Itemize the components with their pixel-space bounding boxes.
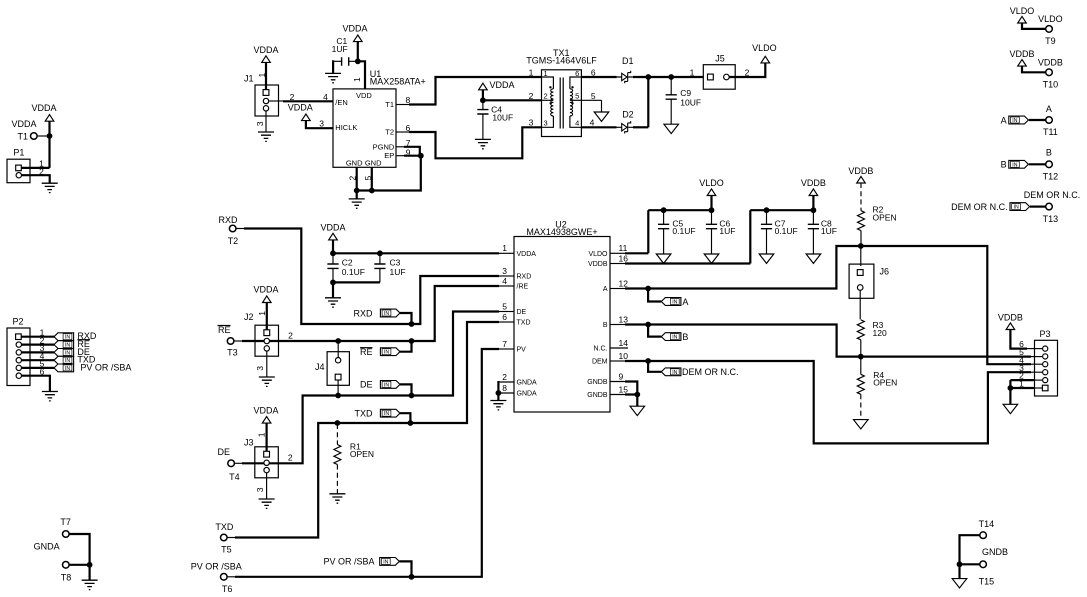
svg-text:EP: EP xyxy=(384,151,394,160)
node junction C7 xyxy=(764,207,770,213)
power flag VDDB at T10 xyxy=(1009,49,1034,66)
svg-text:4: 4 xyxy=(575,118,579,127)
power flag VDDA at HICLK xyxy=(288,103,313,121)
resistor R3 xyxy=(857,320,887,357)
svg-text:P3: P3 xyxy=(1039,329,1050,339)
svg-text:VDDA: VDDA xyxy=(11,119,36,129)
ground T14/T15 xyxy=(952,579,967,588)
jumper J1 xyxy=(244,73,279,117)
svg-text:RXD: RXD xyxy=(517,274,532,281)
ground U2 GNDA xyxy=(490,401,506,410)
test point T12 xyxy=(1043,148,1059,182)
wire VDDB to P3 pin6 xyxy=(1010,329,1027,348)
svg-text:GND: GND xyxy=(346,159,363,168)
wire VDDB rail xyxy=(750,210,813,263)
wire GND stem xyxy=(356,191,358,199)
svg-text:DEM OR N.C.: DEM OR N.C. xyxy=(951,202,1008,212)
svg-text:5: 5 xyxy=(575,92,579,101)
wire TX1 pin5 to ground xyxy=(581,99,601,101)
svg-text:T1: T1 xyxy=(17,131,28,141)
port P2 RXD IN xyxy=(54,331,97,341)
wire RXD to U2 pin3 xyxy=(412,276,500,324)
wire B net xyxy=(610,324,626,326)
port PV OR /SBA IN xyxy=(323,557,411,575)
svg-text:TGMS-1464V6LF: TGMS-1464V6LF xyxy=(526,56,597,66)
svg-text:4: 4 xyxy=(323,92,328,102)
svg-text:GNDB: GNDB xyxy=(587,379,608,386)
svg-text:C9: C9 xyxy=(680,88,691,98)
capacitor C2 xyxy=(327,253,365,282)
svg-text:D2: D2 xyxy=(622,109,634,119)
wire RE net xyxy=(234,340,243,342)
capacitor C8 xyxy=(808,210,837,254)
node junction A tag xyxy=(645,286,651,292)
wire T14/T15 ground xyxy=(960,535,980,564)
wire VDDA stem to C1 junction xyxy=(357,41,359,61)
wire VLDO rail xyxy=(648,210,711,253)
node junction D1/D2 xyxy=(645,74,651,80)
wire GNDB stem xyxy=(636,395,638,407)
svg-text:T11: T11 xyxy=(1043,127,1058,137)
wire C1 left to ground xyxy=(332,60,334,73)
wire PV net xyxy=(227,576,236,578)
svg-text:5: 5 xyxy=(591,91,596,101)
test point T7 xyxy=(60,517,71,537)
wire VDDB stem xyxy=(812,196,814,211)
svg-text:VLDO: VLDO xyxy=(1038,14,1063,24)
svg-text:14: 14 xyxy=(619,338,629,348)
svg-text:J6: J6 xyxy=(880,267,890,277)
jumper J3 xyxy=(244,406,293,499)
svg-text:A: A xyxy=(682,297,688,307)
svg-text:0.1UF: 0.1UF xyxy=(672,226,695,236)
svg-text:DEM: DEM xyxy=(592,359,608,366)
port TXD IN xyxy=(355,408,411,421)
node junction T1/VDDA xyxy=(47,133,53,139)
port A IN xyxy=(648,289,688,307)
capacitor C7 xyxy=(761,210,798,254)
svg-text:PV OR /SBA: PV OR /SBA xyxy=(191,561,242,571)
node junction C4/TX1 pin2 xyxy=(480,97,486,103)
node junction RXD tag xyxy=(409,321,415,327)
svg-text:1: 1 xyxy=(529,68,534,78)
svg-text:1: 1 xyxy=(257,311,267,316)
power flag VDDA at C4 xyxy=(479,80,515,90)
wire P3 ground stem xyxy=(1009,388,1011,404)
svg-text:GNDA: GNDA xyxy=(517,391,538,398)
diode D2 xyxy=(617,109,641,133)
svg-text:T4: T4 xyxy=(229,472,240,482)
node junction P3 ground xyxy=(1008,385,1014,391)
ground T7/T8 xyxy=(82,580,98,589)
svg-text:GND: GND xyxy=(365,159,382,168)
svg-text:2: 2 xyxy=(529,91,534,101)
svg-text:T2: T2 xyxy=(228,236,239,246)
wire A net xyxy=(610,288,626,290)
node junction J4 bottom xyxy=(335,393,341,399)
wire T9 xyxy=(1022,23,1046,29)
svg-text:PV: PV xyxy=(517,347,527,354)
wire D2 cathode to link xyxy=(633,126,648,128)
ground R4 xyxy=(854,420,869,429)
svg-text:T3: T3 xyxy=(227,348,238,358)
port P2 TXD IN xyxy=(54,355,96,365)
svg-text:10UF: 10UF xyxy=(680,97,701,107)
svg-text:RXD: RXD xyxy=(219,215,239,225)
wire J1 pin2 to U1 /EN xyxy=(269,100,283,102)
power flag VDDB at P3 xyxy=(998,312,1023,329)
wire J1 pin1 stem xyxy=(265,62,267,90)
node junction VDD xyxy=(355,58,361,64)
svg-text:T7: T7 xyxy=(60,517,71,527)
svg-text:DEM OR N.C.: DEM OR N.C. xyxy=(682,367,739,377)
wire HICLK xyxy=(306,121,333,129)
svg-text:RXD: RXD xyxy=(353,308,373,318)
svg-text:T12: T12 xyxy=(1043,172,1059,182)
capacitor C5 xyxy=(658,210,696,254)
svg-text:VLDO: VLDO xyxy=(1010,6,1035,16)
test point T3 xyxy=(218,325,238,357)
wire GNDA stem xyxy=(497,393,499,401)
svg-text:3: 3 xyxy=(544,118,548,127)
test point T5 xyxy=(215,522,234,555)
svg-text:VDDA: VDDA xyxy=(253,45,278,55)
svg-text:B: B xyxy=(1001,160,1007,170)
svg-text:RE: RE xyxy=(218,325,231,335)
svg-text:T10: T10 xyxy=(1043,79,1059,89)
svg-text:4: 4 xyxy=(502,276,507,286)
node junction C2 bottom xyxy=(330,280,336,286)
node junction C5 xyxy=(661,207,667,213)
node junction GNDA xyxy=(496,390,502,396)
svg-text:GNDB: GNDB xyxy=(982,547,1008,557)
wire TXD net xyxy=(227,537,236,539)
svg-text:0.1UF: 0.1UF xyxy=(342,267,365,277)
power flag VLDO at C5/C6 xyxy=(699,178,724,195)
node junction DE tag xyxy=(409,393,415,399)
svg-text:N.C.: N.C. xyxy=(594,346,608,353)
svg-text:2: 2 xyxy=(288,452,293,462)
node junction GNDB xyxy=(634,392,640,398)
capacitor C9 xyxy=(666,77,701,124)
wire T10 xyxy=(1022,66,1046,72)
wire D1 cathode to J5 xyxy=(633,76,703,78)
ground P1 xyxy=(42,183,58,192)
svg-text:B: B xyxy=(682,332,688,342)
svg-text:T2: T2 xyxy=(385,128,394,137)
svg-text:D1: D1 xyxy=(622,56,634,66)
jumper J2 xyxy=(244,285,293,378)
wire U2 GNDA pins to ground xyxy=(498,382,514,393)
svg-text:T14: T14 xyxy=(979,519,995,529)
svg-text:1UF: 1UF xyxy=(719,226,735,236)
svg-text:0.1UF: 0.1UF xyxy=(775,226,798,236)
svg-text:VDDA: VDDA xyxy=(342,23,367,33)
wire TX1 pin2 xyxy=(483,99,542,101)
svg-text:15: 15 xyxy=(619,384,629,394)
test point T14 xyxy=(979,519,995,539)
node junction DEM tag xyxy=(645,358,651,364)
ground C2/C3 xyxy=(325,298,341,307)
ground C4 xyxy=(475,139,491,148)
wire VDDA stem to C4 node xyxy=(482,90,484,101)
power flag VDDA above J1 xyxy=(253,45,278,62)
jumper J4 xyxy=(315,341,349,396)
wire U2 pin14 N.C. stub xyxy=(610,347,628,349)
ground P2 xyxy=(42,392,58,401)
svg-text:11: 11 xyxy=(619,243,628,253)
svg-text:10: 10 xyxy=(619,351,629,361)
svg-text:TXD: TXD xyxy=(355,408,374,418)
svg-text:PV OR /SBA: PV OR /SBA xyxy=(323,557,374,567)
svg-text:3: 3 xyxy=(502,266,507,276)
test point T13 xyxy=(1024,190,1081,224)
svg-text:VDDA: VDDA xyxy=(288,103,313,113)
svg-text:OPEN: OPEN xyxy=(350,449,374,459)
svg-text:B: B xyxy=(603,322,608,329)
svg-text:VDDB: VDDB xyxy=(588,261,608,268)
wire VDDA vertical from flag to P1 pin1 xyxy=(48,121,50,168)
svg-text:P1: P1 xyxy=(13,147,24,157)
svg-text:GNDA: GNDA xyxy=(34,542,60,552)
test point T6 xyxy=(191,561,242,594)
wire J1 pin3 to ground xyxy=(265,111,267,132)
ground J3 xyxy=(259,499,275,508)
ground C5 xyxy=(656,254,671,263)
svg-text:MAX14938GWE+: MAX14938GWE+ xyxy=(526,227,597,237)
svg-text:1: 1 xyxy=(257,432,267,437)
wire C2/C3 bottoms xyxy=(333,281,380,283)
port A IN at T11 xyxy=(1001,115,1046,125)
svg-text:5: 5 xyxy=(363,176,373,181)
svg-text:12: 12 xyxy=(619,278,629,288)
svg-text:VDDA: VDDA xyxy=(517,251,537,258)
wire U1 T2 to TX1 pin3 xyxy=(396,131,410,133)
port P2 DE IN xyxy=(54,347,90,357)
svg-text:T15: T15 xyxy=(979,576,995,586)
svg-text:PGND: PGND xyxy=(373,142,395,151)
transformer TX1 xyxy=(526,48,597,136)
power flag VLDO at T9 xyxy=(1010,6,1035,23)
svg-text:OPEN: OPEN xyxy=(873,212,897,222)
svg-text:1: 1 xyxy=(257,73,267,78)
port RE IN xyxy=(360,343,412,358)
wire U2 pin11 xyxy=(610,252,626,254)
svg-text:DE: DE xyxy=(360,380,373,390)
wire DE net xyxy=(234,462,243,464)
ground C6 xyxy=(704,254,719,263)
svg-text:3: 3 xyxy=(255,121,265,126)
svg-text:VDD: VDD xyxy=(356,91,372,100)
wire U1 T1 to TX1 pin1 xyxy=(396,104,410,106)
svg-text:2: 2 xyxy=(347,176,357,181)
node junction T8 xyxy=(87,562,93,568)
svg-text:T9: T9 xyxy=(1045,36,1056,46)
jumper J6 xyxy=(849,246,889,319)
svg-text:MAX258ATA+: MAX258ATA+ xyxy=(370,76,426,86)
resistor R4 xyxy=(857,357,897,420)
port RXD IN xyxy=(353,308,411,322)
svg-text:3: 3 xyxy=(319,119,324,129)
svg-text:A: A xyxy=(1046,104,1052,114)
ground J1 xyxy=(258,132,274,141)
power flag VLDO at J5 xyxy=(752,43,777,63)
test point T4 xyxy=(218,447,240,482)
port DEM IN xyxy=(648,361,738,377)
wire P2 pin6 to ground xyxy=(22,376,50,392)
svg-text:RE: RE xyxy=(360,347,373,357)
ground C8 xyxy=(806,254,821,263)
svg-text:16: 16 xyxy=(619,253,629,263)
svg-text:1: 1 xyxy=(502,243,507,253)
capacitor C3 xyxy=(374,253,405,282)
svg-text:VDDB: VDDB xyxy=(998,312,1023,322)
wire TX1 pin4 to D2 xyxy=(581,126,616,128)
node junction EP xyxy=(418,153,424,159)
wire TX1 pin6 to D1 xyxy=(581,76,616,78)
node junction C9 xyxy=(668,74,674,80)
test point T2 xyxy=(219,215,239,246)
test point T8 xyxy=(61,562,72,583)
svg-text:C2: C2 xyxy=(342,257,353,267)
port DEM IN at T13 xyxy=(951,202,1045,212)
svg-text:1UF: 1UF xyxy=(332,44,348,54)
svg-text:VDDA: VDDA xyxy=(31,103,56,113)
ground C7 xyxy=(759,254,774,263)
node junction T15 xyxy=(957,561,963,567)
wire U2 GNDB pins to ground xyxy=(610,382,626,395)
svg-text:1: 1 xyxy=(544,69,548,78)
power flag VDDA at C2 xyxy=(320,223,345,240)
svg-text:/RE: /RE xyxy=(517,284,529,291)
wire P2 pin2 xyxy=(22,344,55,346)
ground R1 xyxy=(329,494,345,503)
wire D1-D2 link vertical xyxy=(647,77,649,127)
test point T9 xyxy=(1038,14,1063,46)
wire VDD pin1 stub xyxy=(357,61,365,89)
svg-text:6: 6 xyxy=(575,69,579,78)
svg-text:A: A xyxy=(1001,115,1007,125)
wire T15 stem xyxy=(958,564,960,578)
svg-text:DE: DE xyxy=(218,447,231,457)
ground C1 xyxy=(325,73,341,82)
svg-text:J2: J2 xyxy=(244,312,254,322)
svg-text:DE: DE xyxy=(517,309,527,316)
svg-text:3: 3 xyxy=(255,487,265,492)
wire P1 pin1 xyxy=(21,167,49,169)
svg-text:DEM OR N.C.: DEM OR N.C. xyxy=(1024,190,1081,200)
node junction TXD tag xyxy=(408,420,414,426)
port B IN xyxy=(648,325,688,343)
capacitor C1 xyxy=(332,36,356,65)
wire VDDA stem xyxy=(332,240,334,253)
power flag VDDB at R2 xyxy=(848,166,873,183)
node junction A/R2/J6 xyxy=(858,243,864,249)
wire DEM net xyxy=(610,360,626,362)
svg-text:2: 2 xyxy=(502,372,507,382)
svg-text:VDDB: VDDB xyxy=(848,166,873,176)
wire T7/T8 ground xyxy=(69,534,89,565)
test point T10 xyxy=(1038,57,1063,89)
svg-text:T5: T5 xyxy=(221,545,232,555)
svg-text:2: 2 xyxy=(544,92,548,101)
ground P3 xyxy=(1003,404,1018,413)
svg-text:GNDB: GNDB xyxy=(587,392,608,399)
svg-text:J4: J4 xyxy=(315,362,325,372)
capacitor C4 xyxy=(477,100,513,139)
test point T1 xyxy=(11,119,46,141)
svg-text:6: 6 xyxy=(502,312,507,322)
svg-text:GNDA: GNDA xyxy=(517,380,538,387)
ground C9 xyxy=(664,124,679,133)
svg-text:TXD: TXD xyxy=(215,522,234,532)
node junction PV tag xyxy=(409,574,415,580)
node junction GND1 xyxy=(354,188,360,194)
wire P1 pin2 to ground xyxy=(22,174,50,176)
svg-text:VDDA: VDDA xyxy=(253,285,278,295)
node junction C6 xyxy=(709,207,715,213)
svg-text:VDDB: VDDB xyxy=(801,178,826,188)
svg-text:P2: P2 xyxy=(13,316,24,326)
connector P2 xyxy=(7,316,30,385)
svg-text:T8: T8 xyxy=(61,572,72,582)
port P2 RE IN xyxy=(54,339,90,349)
diode D1 xyxy=(617,56,635,83)
svg-text:9: 9 xyxy=(619,371,624,381)
svg-text:1: 1 xyxy=(690,67,695,77)
wire VDDA rail to U2 pin1 xyxy=(333,252,499,254)
svg-text:VLDO: VLDO xyxy=(588,251,608,258)
svg-text:5: 5 xyxy=(502,301,507,311)
svg-text:3: 3 xyxy=(529,118,534,128)
svg-text:VDDA: VDDA xyxy=(490,80,515,90)
node junction C2 top xyxy=(330,250,336,256)
capacitor C6 xyxy=(706,210,736,254)
wire stem to ground xyxy=(332,282,334,297)
wire J5 pin2 to VLDO flag xyxy=(729,63,765,77)
ground U1 xyxy=(349,199,365,208)
svg-text:PV OR /SBA: PV OR /SBA xyxy=(80,362,131,372)
ground J2 xyxy=(259,377,275,386)
svg-text:TXD: TXD xyxy=(517,320,531,327)
wire P2 pin5 xyxy=(22,367,55,369)
svg-text:T1: T1 xyxy=(385,100,394,109)
node junction R1 xyxy=(335,420,341,426)
wire VLDO stem xyxy=(710,196,712,211)
node junction B/R3/R4 xyxy=(858,354,864,360)
svg-text:VDDA: VDDA xyxy=(253,406,278,416)
ground TX1 pin5 xyxy=(594,112,609,121)
svg-text:10UF: 10UF xyxy=(492,112,513,122)
svg-text:4: 4 xyxy=(590,118,595,128)
svg-text:VLDO: VLDO xyxy=(699,178,724,188)
wire RXD net xyxy=(236,228,245,230)
svg-text:13: 13 xyxy=(619,314,629,324)
svg-text:T6: T6 xyxy=(222,584,233,594)
wire P2 pin3 xyxy=(22,351,55,353)
resistor R2 xyxy=(858,183,897,246)
port B IN at T12 xyxy=(1001,160,1046,170)
jumper J5 xyxy=(703,54,735,89)
port DE IN xyxy=(360,380,412,394)
svg-text:A: A xyxy=(603,286,608,293)
svg-text:7: 7 xyxy=(502,339,507,349)
wire PGND/EP to ground bus xyxy=(396,146,405,148)
svg-text:C3: C3 xyxy=(390,257,401,267)
resistor R1 xyxy=(334,424,374,494)
svg-text:B: B xyxy=(1046,148,1052,158)
svg-text:J5: J5 xyxy=(715,54,725,64)
